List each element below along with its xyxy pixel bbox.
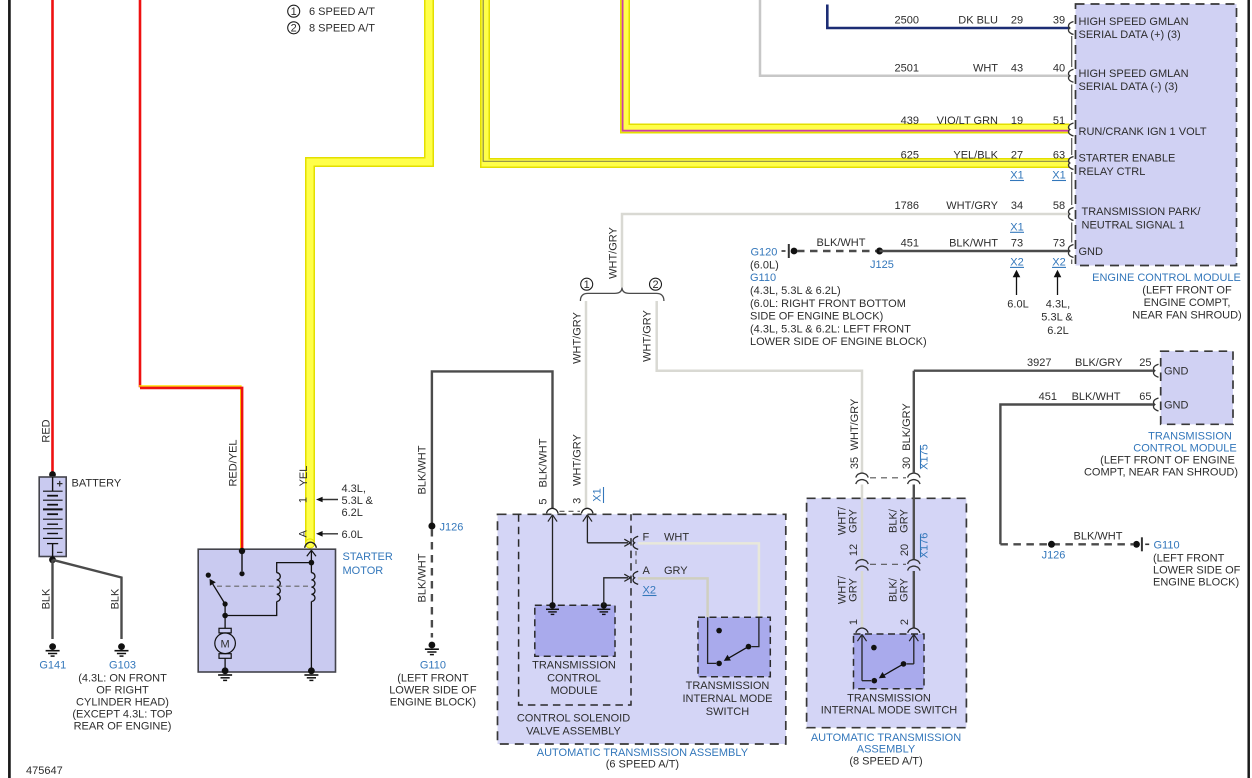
note marker 2 on right branch bbox=[650, 278, 662, 291]
svg-text:625: 625 bbox=[901, 150, 919, 162]
svg-text:TRANSMISSION: TRANSMISSION bbox=[1148, 431, 1232, 443]
svg-text:A: A bbox=[643, 565, 651, 577]
svg-text:INTERNAL MODE SWITCH: INTERNAL MODE SWITCH bbox=[821, 705, 958, 717]
svg-text:439: 439 bbox=[901, 115, 919, 127]
starter connector receptacle for YEL bbox=[305, 542, 317, 548]
wire id 3927 BLK/GRY bbox=[1027, 357, 1123, 369]
transmission internal mode switch box (8 spd) bbox=[854, 634, 925, 689]
svg-text:(LEFT FRONT: (LEFT FRONT bbox=[1153, 553, 1225, 565]
svg-text:STARTER ENABLE: STARTER ENABLE bbox=[1079, 153, 1176, 165]
ECM pin receptacle 39 bbox=[1068, 22, 1073, 35]
inline connector X175 BLK/GRY half bbox=[908, 473, 920, 484]
svg-text:58: 58 bbox=[1053, 200, 1065, 212]
ECM pin receptacle 51 bbox=[1068, 123, 1073, 136]
8-speed automatic transmission assembly box bbox=[807, 498, 967, 727]
svg-text:ASSEMBLY: ASSEMBLY bbox=[857, 744, 916, 756]
wire YEL thick from top to starter bbox=[305, 0, 429, 548]
svg-text:1: 1 bbox=[291, 6, 297, 18]
svg-text:TRANSMISSION PARK/: TRANSMISSION PARK/ bbox=[1082, 206, 1202, 218]
svg-text:G110: G110 bbox=[750, 272, 776, 284]
svg-text:19: 19 bbox=[1011, 115, 1023, 127]
splice J126 bbox=[428, 523, 435, 530]
pull-in winding coil bbox=[277, 573, 281, 602]
wire BLK/GRY inside 8spd upper bbox=[913, 485, 915, 560]
mode switch pin2 arrow bbox=[909, 634, 918, 664]
svg-text:SERIAL DATA (-) (3): SERIAL DATA (-) (3) bbox=[1079, 81, 1178, 93]
wire id 451 BLK/WHT bbox=[901, 238, 999, 250]
6-speed automatic transmission assembly box bbox=[498, 514, 786, 744]
X1 face dash link bbox=[560, 510, 581, 512]
svg-text:A: A bbox=[298, 529, 310, 537]
pin 3 arrow into module bbox=[583, 515, 592, 543]
note G103 location text bbox=[72, 673, 172, 733]
svg-text:73: 73 bbox=[1053, 238, 1065, 250]
svg-text:TRANSMISSION: TRANSMISSION bbox=[532, 660, 616, 672]
svg-text:(6 SPEED A/T): (6 SPEED A/T) bbox=[606, 759, 679, 771]
svg-text:WHT/GRY: WHT/GRY bbox=[849, 398, 861, 450]
svg-text:CONTROL MODULE: CONTROL MODULE bbox=[1133, 443, 1237, 455]
mode switch common node (8spd) bbox=[872, 678, 878, 684]
mode switch free contact (8spd) bbox=[871, 645, 877, 651]
TCM ground pin left bbox=[546, 602, 559, 614]
F connector arrow bbox=[624, 539, 630, 546]
wire WHT to mode switch bbox=[638, 543, 759, 617]
node solenoid top bbox=[309, 560, 315, 566]
label AUTOMATIC TRANSMISSION ASSEMBLY (6 SPEED) bbox=[537, 747, 749, 771]
transmission control module box (6 spd) bbox=[535, 605, 615, 656]
wire BLK/WHT J126 up and over to pin 5 bbox=[432, 371, 553, 524]
svg-text:4.3L,: 4.3L, bbox=[342, 483, 366, 495]
svg-text:BLK/WHT: BLK/WHT bbox=[949, 238, 998, 250]
svg-text:2501: 2501 bbox=[895, 63, 919, 75]
svg-text:HIGH SPEED GMLAN: HIGH SPEED GMLAN bbox=[1079, 68, 1189, 80]
node solenoid switch contact bbox=[239, 571, 244, 576]
svg-text:63: 63 bbox=[1053, 150, 1065, 162]
svg-text:AUTOMATIC TRANSMISSION: AUTOMATIC TRANSMISSION bbox=[811, 732, 961, 744]
connector id X1 X1 under pins 27 63 bbox=[1010, 170, 1066, 182]
svg-text:GND: GND bbox=[1164, 366, 1189, 378]
F connector receptacle bbox=[633, 536, 638, 549]
node RED/YEL entry dot on box edge bbox=[239, 548, 245, 554]
svg-text:(4.3L: ON FRONT: (4.3L: ON FRONT bbox=[78, 673, 167, 685]
ECM internal labels bbox=[1079, 16, 1207, 258]
wire WHT 2501 from top to ECM bbox=[760, 0, 1070, 76]
svg-text:40: 40 bbox=[1053, 63, 1065, 75]
pin numbers column 2 bbox=[1053, 15, 1065, 250]
svg-text:25: 25 bbox=[1139, 357, 1151, 369]
svg-text:CONTROL SOLENOID: CONTROL SOLENOID bbox=[517, 713, 630, 725]
svg-text:BLK: BLK bbox=[41, 588, 53, 609]
svg-text:65: 65 bbox=[1139, 391, 1151, 403]
svg-text:WHT: WHT bbox=[664, 532, 689, 544]
svg-text:5.3L &: 5.3L & bbox=[342, 495, 374, 507]
wire BLK battery to G103 bbox=[53, 560, 122, 639]
svg-text:NEUTRAL SIGNAL 1: NEUTRAL SIGNAL 1 bbox=[1082, 220, 1185, 232]
wire 451 BLK/WHT TCM to J126 bbox=[1000, 405, 1154, 545]
control solenoid valve assembly inner box bbox=[519, 514, 631, 705]
wire id 2501 WHT bbox=[895, 63, 999, 75]
svg-text:+: + bbox=[57, 479, 63, 491]
svg-text:VALVE ASSEMBLY: VALVE ASSEMBLY bbox=[526, 725, 621, 737]
pin numbers column 1 bbox=[1011, 15, 1023, 250]
label CONTROL SOLENOID VALVE ASSEMBLY bbox=[517, 713, 630, 738]
label TRANSMISSION CONTROL MODULE (6spd) bbox=[532, 660, 616, 698]
wire id 625 YEL/BLK bbox=[901, 150, 999, 162]
svg-text:LOWER SIDE OF ENGINE BLOCK): LOWER SIDE OF ENGINE BLOCK) bbox=[750, 336, 927, 348]
svg-text:6.0L: 6.0L bbox=[1007, 298, 1028, 310]
wire WHT/GRY branch 1 to 6-speed TCM bbox=[585, 301, 588, 509]
wire WHT/GRY 1786 to ECM bbox=[622, 214, 1070, 287]
svg-text:MOTOR: MOTOR bbox=[343, 565, 384, 577]
starter pin 1 label and arrow bbox=[298, 483, 374, 519]
TCM ground pin right bbox=[597, 602, 610, 614]
svg-text:30: 30 bbox=[901, 457, 913, 469]
svg-text:1: 1 bbox=[848, 619, 860, 625]
mode switch internal wire left bbox=[708, 617, 716, 663]
wire hold-in winding to ground bbox=[310, 563, 312, 573]
mode switch arm arrow bbox=[724, 647, 749, 661]
ground G110 left bbox=[420, 642, 446, 672]
wire RED from top to battery bbox=[51, 0, 54, 472]
svg-text:GRY: GRY bbox=[848, 509, 860, 533]
svg-text:ENGINE CONTROL MODULE: ENGINE CONTROL MODULE bbox=[1092, 272, 1241, 284]
svg-text:RELAY CTRL: RELAY CTRL bbox=[1079, 166, 1146, 178]
svg-text:WHT/GRY: WHT/GRY bbox=[642, 309, 654, 361]
svg-text:1786: 1786 bbox=[895, 200, 919, 212]
svg-text:J125: J125 bbox=[870, 259, 894, 271]
wire id 2500 DK BLU bbox=[895, 15, 999, 27]
wire BLK battery to G141 bbox=[51, 560, 53, 639]
svg-text:(LEFT FRONT OF: (LEFT FRONT OF bbox=[1142, 285, 1232, 297]
wire switch to motor junction bbox=[224, 604, 226, 616]
svg-text:HIGH SPEED GMLAN: HIGH SPEED GMLAN bbox=[1079, 16, 1189, 28]
svg-text:RUN/CRANK IGN 1 VOLT: RUN/CRANK IGN 1 VOLT bbox=[1079, 126, 1207, 138]
svg-text:451: 451 bbox=[1039, 391, 1057, 403]
svg-text:INTERNAL MODE: INTERNAL MODE bbox=[682, 693, 772, 705]
wire RED second from top, becomes RED/YEL bbox=[139, 0, 142, 387]
svg-text:BLK/WHT: BLK/WHT bbox=[1074, 531, 1123, 543]
F/A face dash link bbox=[635, 551, 637, 568]
svg-text:BLK/WHT: BLK/WHT bbox=[538, 438, 550, 487]
svg-text:5.3L &: 5.3L & bbox=[1041, 312, 1073, 324]
svg-text:WHT/GRY: WHT/GRY bbox=[946, 200, 998, 212]
svg-text:6.2L: 6.2L bbox=[342, 507, 363, 519]
wire BLK/WHT dashed J126 to G110 bbox=[431, 529, 433, 638]
svg-text:NEAR FAN SHROUD): NEAR FAN SHROUD) bbox=[1132, 310, 1241, 322]
svg-text:2: 2 bbox=[291, 23, 297, 35]
svg-text:REAR OF ENGINE): REAR OF ENGINE) bbox=[74, 721, 172, 733]
starter connector pin arrow bbox=[307, 550, 316, 562]
svg-text:BLK/WHT: BLK/WHT bbox=[417, 445, 429, 494]
ECM pin receptacle 73 bbox=[1068, 245, 1073, 258]
svg-text:DK BLU: DK BLU bbox=[958, 15, 998, 27]
TCM pin receptacle 25 bbox=[1153, 364, 1158, 377]
svg-text:CONTROL: CONTROL bbox=[547, 672, 601, 684]
ECM connector face dashes bbox=[1071, 36, 1073, 264]
svg-text:34: 34 bbox=[1011, 200, 1023, 212]
module connector X1 receptacle pin3 bbox=[581, 508, 593, 513]
svg-text:X1: X1 bbox=[592, 488, 604, 501]
legend note 1: 6 SPEED A/T bbox=[288, 5, 376, 18]
svg-text:GRY: GRY bbox=[848, 578, 860, 602]
wire BLK/GRY inside 8spd lower bbox=[913, 571, 915, 629]
svg-text:1: 1 bbox=[298, 497, 310, 503]
svg-text:73: 73 bbox=[1011, 238, 1023, 250]
note G110 right location bbox=[1153, 553, 1241, 589]
svg-text:−: − bbox=[57, 547, 63, 559]
hold-in winding coil bbox=[311, 573, 315, 602]
mode switch pin1 arrow bbox=[857, 634, 866, 680]
ECM pin receptacle 63 bbox=[1068, 157, 1073, 170]
svg-text:2500: 2500 bbox=[895, 15, 919, 27]
starter switch arm with arrow bbox=[210, 579, 228, 607]
wire id 439 VIO/LT GRN bbox=[901, 115, 998, 127]
battery B+ bbox=[39, 477, 66, 559]
svg-text:(4.3L, 5.3L & 6.2L: LEFT FRONT: (4.3L, 5.3L & 6.2L: LEFT FRONT bbox=[750, 323, 911, 335]
svg-text:BLK/WHT: BLK/WHT bbox=[1072, 391, 1121, 403]
wire id 451 BLK/WHT bbox=[1039, 391, 1121, 403]
svg-text:ENGINE BLOCK): ENGINE BLOCK) bbox=[390, 697, 476, 709]
svg-text:SIDE OF ENGINE BLOCK): SIDE OF ENGINE BLOCK) bbox=[750, 311, 883, 323]
mode switch internal wire right (8spd) bbox=[907, 663, 914, 665]
svg-text:(LEFT FRONT: (LEFT FRONT bbox=[397, 673, 469, 685]
starter switch contact dot bbox=[206, 573, 211, 578]
svg-text:G110: G110 bbox=[1154, 540, 1180, 552]
svg-text:(6.0L): (6.0L) bbox=[750, 259, 779, 271]
svg-text:G103: G103 bbox=[109, 660, 136, 672]
ECM pin receptacle 58 bbox=[1068, 208, 1073, 221]
svg-text:MODULE: MODULE bbox=[550, 685, 597, 697]
wire junction to motor bbox=[224, 616, 226, 629]
module connector X1 receptacle pin5 bbox=[547, 508, 559, 513]
svg-text:2: 2 bbox=[652, 279, 658, 291]
svg-text:CYLINDER HEAD): CYLINDER HEAD) bbox=[76, 697, 169, 709]
inline connector X176 WHT/GRY half bbox=[856, 560, 868, 571]
X2 arrow 6.0L bbox=[1007, 270, 1028, 311]
svg-text:GRY: GRY bbox=[664, 565, 688, 577]
svg-text:27: 27 bbox=[1011, 150, 1023, 162]
svg-text:COMPT, NEAR FAN SHROUD): COMPT, NEAR FAN SHROUD) bbox=[1084, 467, 1238, 479]
svg-text:475647: 475647 bbox=[26, 765, 63, 777]
ground G110 right bolt bbox=[1133, 537, 1149, 551]
A connector arrow bbox=[624, 574, 630, 581]
svg-text:STARTER: STARTER bbox=[343, 551, 393, 563]
svg-text:(4.3L, 5.3L & 6.2L): (4.3L, 5.3L & 6.2L) bbox=[750, 285, 841, 297]
splice J126 right bbox=[1048, 541, 1055, 548]
mode switch internal wire left (8spd) bbox=[862, 680, 871, 682]
svg-text:WHT: WHT bbox=[973, 63, 998, 75]
svg-text:J126: J126 bbox=[1042, 550, 1066, 562]
svg-text:TRANSMISSION: TRANSMISSION bbox=[686, 680, 770, 692]
mode switch internal wire right bbox=[752, 617, 759, 646]
svg-text:6.0L: 6.0L bbox=[342, 529, 363, 541]
wire winding top to node bbox=[277, 563, 312, 573]
starter pin A label and arrow bbox=[298, 529, 363, 541]
mode switch contact node bbox=[746, 644, 752, 650]
mode switch receptacle pin1 bbox=[856, 628, 868, 633]
wire 3927 BLK/GRY to TCM bbox=[914, 370, 1155, 372]
mechanical link dashed bbox=[217, 585, 308, 587]
connector id X175 (rotated) bbox=[919, 444, 931, 470]
wire solenoid switch feed bbox=[241, 551, 243, 571]
connector id X2 X2 under pins 73 73 bbox=[1010, 256, 1066, 268]
ground G120 bolt symbol bbox=[782, 244, 798, 258]
svg-text:(8 SPEED A/T): (8 SPEED A/T) bbox=[849, 755, 922, 767]
connector id X1 (rotated) bbox=[592, 487, 604, 503]
ground G103 bbox=[109, 643, 136, 671]
svg-text:BLK: BLK bbox=[110, 588, 122, 609]
wire TCM to A connector bbox=[604, 578, 628, 606]
wire id 1786 WHT/GRY bbox=[895, 200, 999, 212]
svg-text:M: M bbox=[221, 639, 230, 651]
mode switch contact node (8spd) bbox=[901, 661, 907, 667]
wire junction to pull-in winding bbox=[225, 602, 277, 616]
svg-text:X1: X1 bbox=[1010, 221, 1023, 233]
svg-text:39: 39 bbox=[1053, 15, 1065, 27]
svg-text:1: 1 bbox=[584, 279, 590, 291]
ground G141 bbox=[39, 643, 66, 671]
wire motor to ground bbox=[224, 658, 226, 669]
wire pin3 to F connector bbox=[587, 542, 628, 544]
connector id X2 (6spd) bbox=[643, 585, 657, 597]
ECM box bbox=[1076, 4, 1237, 266]
inline connector X175 WHT/GRY half bbox=[856, 473, 868, 484]
starter ground left bbox=[218, 667, 232, 680]
TCM pin receptacle 65 bbox=[1153, 398, 1158, 411]
mode switch free contact bbox=[716, 628, 722, 634]
starter motor box bbox=[198, 549, 335, 672]
wire BLK/GRY down from 3927 junction bbox=[913, 371, 915, 474]
svg-text:OF RIGHT: OF RIGHT bbox=[96, 685, 149, 697]
note marker 1 on left branch bbox=[581, 278, 593, 291]
ECM pin receptacle 40 bbox=[1068, 69, 1073, 82]
svg-text:ENGINE COMPT,: ENGINE COMPT, bbox=[1144, 297, 1231, 309]
connector id X176 (rotated) bbox=[919, 533, 931, 559]
svg-text:G110: G110 bbox=[420, 660, 446, 672]
svg-text:GND: GND bbox=[1164, 400, 1189, 412]
svg-text:X2: X2 bbox=[1052, 256, 1065, 268]
svg-text:35: 35 bbox=[849, 457, 861, 469]
svg-text:F: F bbox=[643, 532, 650, 544]
label TRANSMISSION INTERNAL MODE SWITCH (8spd) bbox=[821, 693, 958, 717]
svg-text:WHT/GRY: WHT/GRY bbox=[572, 433, 584, 485]
svg-text:RED/YEL: RED/YEL bbox=[228, 439, 240, 486]
wire 451 BLK/WHT J125 to ECM bbox=[880, 250, 1070, 252]
svg-text:TRANSMISSION: TRANSMISSION bbox=[847, 693, 931, 705]
label AUTOMATIC TRANSMISSION ASSEMBLY (8 SPEED) bbox=[811, 732, 961, 768]
X175 dash link bbox=[870, 477, 906, 479]
X176 dash link bbox=[870, 563, 906, 565]
wire YEL/BLK 625 from top to ECM bbox=[483, 0, 1069, 163]
node battery positive junction bbox=[49, 471, 56, 478]
svg-text:29: 29 bbox=[1011, 15, 1023, 27]
svg-text:X2: X2 bbox=[1010, 256, 1023, 268]
svg-text:3927: 3927 bbox=[1027, 357, 1051, 369]
transmission internal mode switch box (6 spd) bbox=[698, 617, 770, 676]
label TRANSMISSION CONTROL MODULE (right) bbox=[1084, 431, 1238, 479]
node motor junction bbox=[222, 613, 228, 619]
inline connector X176 BLK/GRY half bbox=[908, 560, 920, 571]
svg-text:(6.0L: RIGHT FRONT BOTTOM: (6.0L: RIGHT FRONT BOTTOM bbox=[750, 298, 906, 310]
wire BLK/WHT dashed to G110 right bbox=[1000, 543, 1133, 545]
svg-text:J126: J126 bbox=[440, 522, 464, 534]
svg-text:GRY: GRY bbox=[899, 509, 911, 533]
note ECM location bbox=[1132, 285, 1241, 322]
wire GRY to mode switch bbox=[638, 578, 708, 617]
svg-text:AUTOMATIC TRANSMISSION ASSEMBL: AUTOMATIC TRANSMISSION ASSEMBLY bbox=[537, 747, 749, 759]
svg-text:ENGINE BLOCK): ENGINE BLOCK) bbox=[1153, 577, 1239, 589]
svg-text:G141: G141 bbox=[39, 660, 66, 672]
svg-text:WHT/GRY: WHT/GRY bbox=[608, 226, 620, 278]
note G110 left location bbox=[389, 673, 477, 709]
X2 arrow 4.3L 5.3L 6.2L bbox=[1041, 270, 1073, 337]
svg-text:SERIAL DATA (+) (3): SERIAL DATA (+) (3) bbox=[1079, 29, 1181, 41]
legend note 2: 8 SPEED A/T bbox=[288, 22, 376, 35]
wire DK BLU 2500 to ECM bbox=[827, 5, 1069, 29]
svg-text:51: 51 bbox=[1053, 115, 1065, 127]
wire WHT/GRY branch 2 toward 8-speed bbox=[657, 301, 862, 473]
brace splice for WHT/GRY branches bbox=[580, 287, 664, 301]
svg-text:(LEFT FRONT OF ENGINE: (LEFT FRONT OF ENGINE bbox=[1100, 455, 1235, 467]
mode switch arm arrow (8spd) bbox=[879, 664, 904, 678]
svg-text:43: 43 bbox=[1011, 63, 1023, 75]
svg-text:451: 451 bbox=[901, 238, 919, 250]
svg-text:5: 5 bbox=[538, 498, 550, 504]
svg-text:WHT/GRY: WHT/GRY bbox=[572, 311, 584, 363]
svg-text:YEL: YEL bbox=[298, 466, 310, 487]
svg-text:GND: GND bbox=[1079, 246, 1104, 258]
svg-text:BLK/GRY: BLK/GRY bbox=[901, 403, 913, 451]
svg-text:BATTERY: BATTERY bbox=[72, 478, 122, 490]
note ground location text block bbox=[750, 259, 927, 348]
page left border line bbox=[8, 0, 11, 778]
svg-text:6.2L: 6.2L bbox=[1047, 325, 1068, 337]
svg-text:12: 12 bbox=[848, 544, 860, 556]
svg-text:LOWER SIDE OF: LOWER SIDE OF bbox=[389, 685, 477, 697]
page right border line bbox=[1247, 0, 1250, 778]
svg-text:6 SPEED A/T: 6 SPEED A/T bbox=[309, 6, 375, 18]
connector id X1 under pin 34 bbox=[1010, 221, 1024, 233]
svg-text:3: 3 bbox=[572, 498, 584, 504]
svg-text:GRY: GRY bbox=[899, 578, 911, 602]
svg-text:BLK/WHT: BLK/WHT bbox=[817, 237, 866, 249]
transmission control module box (right) bbox=[1161, 351, 1233, 424]
wire WHT/GRY inside 8spd lower bbox=[861, 571, 864, 629]
svg-text:YEL/BLK: YEL/BLK bbox=[953, 150, 998, 162]
pin 5 arrow into module bbox=[548, 515, 557, 605]
wire VIO/LT GRN 439 from top to ECM bbox=[623, 0, 1070, 131]
svg-text:LOWER SIDE OF: LOWER SIDE OF bbox=[1153, 565, 1241, 577]
wire BLK/WHT dashed G120 to J125 bbox=[797, 250, 876, 252]
A connector receptacle bbox=[633, 571, 638, 584]
motor M bbox=[215, 628, 236, 658]
svg-text:4.3L,: 4.3L, bbox=[1046, 298, 1070, 310]
node battery negative junction bbox=[49, 556, 56, 563]
label TRANSMISSION INTERNAL MODE SWITCH (6spd) bbox=[682, 680, 772, 718]
mode switch common node bbox=[716, 661, 722, 667]
mode switch receptacle pin2 bbox=[908, 628, 920, 633]
splice J125 bbox=[876, 248, 883, 255]
svg-text:2: 2 bbox=[899, 619, 911, 625]
svg-text:BLK/GRY: BLK/GRY bbox=[1075, 357, 1123, 369]
svg-text:VIO/LT GRN: VIO/LT GRN bbox=[937, 115, 998, 127]
svg-text:X2: X2 bbox=[643, 585, 656, 597]
svg-text:G120: G120 bbox=[751, 247, 778, 259]
wire WHT/GRY inside 8spd upper bbox=[861, 485, 864, 560]
svg-text:X1: X1 bbox=[1052, 170, 1065, 182]
starter ground right bbox=[304, 667, 318, 680]
svg-text:8 SPEED A/T: 8 SPEED A/T bbox=[309, 23, 375, 35]
